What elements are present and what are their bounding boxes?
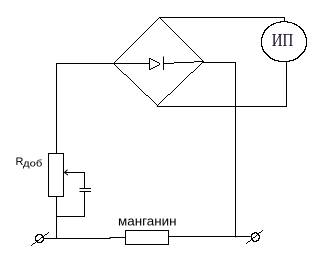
resistor манганин body	[126, 231, 169, 245]
terminal right	[251, 232, 260, 242]
resistor Rдоб body	[49, 154, 64, 197]
wire bottom-left rail	[43, 237, 125, 238]
wire right: diamond right corner down to bottom wire	[203, 63, 236, 238]
diode VD1 cathode bar	[163, 57, 165, 71]
meter ИП	[261, 21, 307, 62]
diode VD1 cathode wire	[163, 61, 204, 64]
bridge rectifier diamond	[113, 17, 204, 106]
diode VD1 triangle	[149, 58, 160, 70]
wire: Rдоб bottom down to bottom rail	[56, 197, 58, 239]
svg-text:манганин: манганин	[118, 214, 177, 229]
wire: capacitor bottom to left vertical	[57, 192, 85, 217]
capacitor C plates	[80, 188, 92, 190]
wire left: diamond left corner to Rдоб top	[57, 63, 114, 153]
wire: wiper to capacitor	[65, 173, 85, 189]
wire bottom-right rail	[169, 235, 251, 237]
svg-text:ИП: ИП	[272, 30, 294, 50]
diode VD1 anode wire	[113, 63, 149, 65]
wire: meter bottom down and left to diamond bottom corner	[157, 62, 287, 107]
wire top: diamond top corner to meter	[159, 18, 285, 22]
svg-text:доб: доб	[23, 158, 43, 169]
terminal left	[35, 234, 44, 243]
wiper arrow of Rдоб	[65, 170, 69, 175]
